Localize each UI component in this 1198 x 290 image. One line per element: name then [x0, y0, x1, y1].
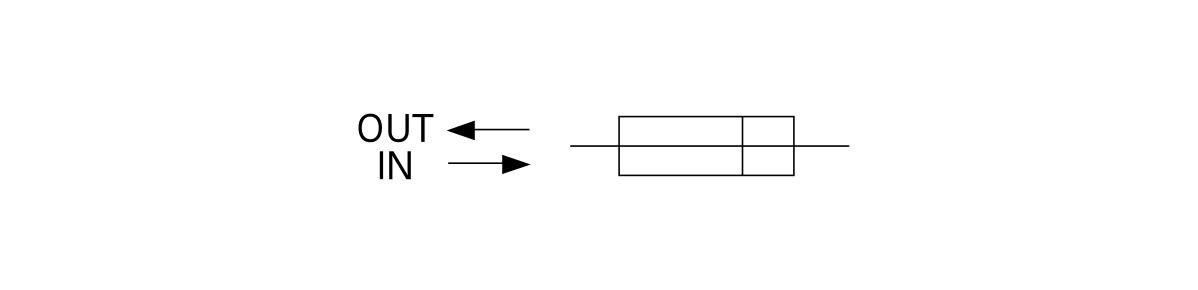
arrow OUT (left-pointing): [447, 121, 530, 141]
label IN: [380, 151, 411, 179]
label OUT: [359, 114, 434, 143]
wire through fuse: [570, 145, 849, 147]
fuse end-cap divider: [742, 117, 744, 176]
fuse body: [619, 117, 794, 176]
arrow IN (right-pointing): [448, 155, 531, 174]
